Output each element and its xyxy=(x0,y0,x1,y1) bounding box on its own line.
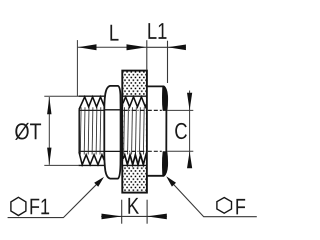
label L xyxy=(110,25,118,41)
F1 leader arrowhead xyxy=(94,177,104,187)
F leader arrowhead xyxy=(166,176,176,186)
dimension L right arrowhead xyxy=(127,44,147,50)
chamfer crescent top-right xyxy=(162,86,167,111)
thread start (left end) xyxy=(78,110,80,153)
F1 legend: hexagon symbol xyxy=(11,197,26,215)
thread zigzag top xyxy=(79,97,147,165)
jam nut (locknut) F1 xyxy=(104,86,120,179)
thread root lines dash-dot through panel xyxy=(123,110,146,151)
panel nut F (right) xyxy=(147,86,167,177)
dimension L1 extension line 2 xyxy=(167,41,169,83)
dimension C top extension line xyxy=(167,109,193,111)
label L1 xyxy=(148,23,166,39)
F leader line + arrow to panel nut xyxy=(168,179,256,217)
dimension L left arrowhead xyxy=(78,44,97,50)
thread flank hatch lines xyxy=(80,107,144,154)
bulkhead panel (stippled wall) xyxy=(122,71,147,193)
thread zigzag bottom xyxy=(79,152,105,165)
dimension ØT top extension line xyxy=(44,95,79,97)
dimension K right extension line xyxy=(146,200,148,224)
dimension ØT line xyxy=(48,97,50,165)
chamfer crescent bottom-right xyxy=(162,151,167,176)
dimension C top arrowhead xyxy=(187,93,192,110)
F legend: hexagon symbol xyxy=(217,198,232,214)
dimension L1 arrowhead xyxy=(168,45,186,51)
dimension C line xyxy=(189,91,191,168)
dimension L extension line xyxy=(76,40,78,96)
dimension K left arrowhead xyxy=(102,214,122,220)
hidden thread dashes in nut xyxy=(148,109,162,111)
dimension K line xyxy=(101,215,167,217)
dimension L line xyxy=(78,46,147,48)
threaded stud: crest lines xyxy=(79,96,147,165)
dimension K left extension line xyxy=(121,200,123,224)
label ØT xyxy=(15,123,41,140)
dimension ØT bottom arrowhead xyxy=(47,148,51,165)
dimension K right arrowhead xyxy=(147,214,167,220)
label C xyxy=(175,123,187,139)
label K xyxy=(128,198,139,214)
label F xyxy=(236,199,245,214)
dimension C bottom extension line xyxy=(167,150,193,152)
thread root lines (solid in open area) xyxy=(79,110,104,151)
dimension L1 extension line 1 xyxy=(146,40,148,70)
label F1 xyxy=(30,199,49,214)
dimension ØT top arrowhead xyxy=(47,97,51,114)
F1 leader line + arrow to jam nut xyxy=(8,179,103,218)
dimension L1 line xyxy=(147,46,186,48)
dimension C bottom arrowhead xyxy=(187,152,192,169)
dimension ØT bottom extension line xyxy=(44,164,79,166)
